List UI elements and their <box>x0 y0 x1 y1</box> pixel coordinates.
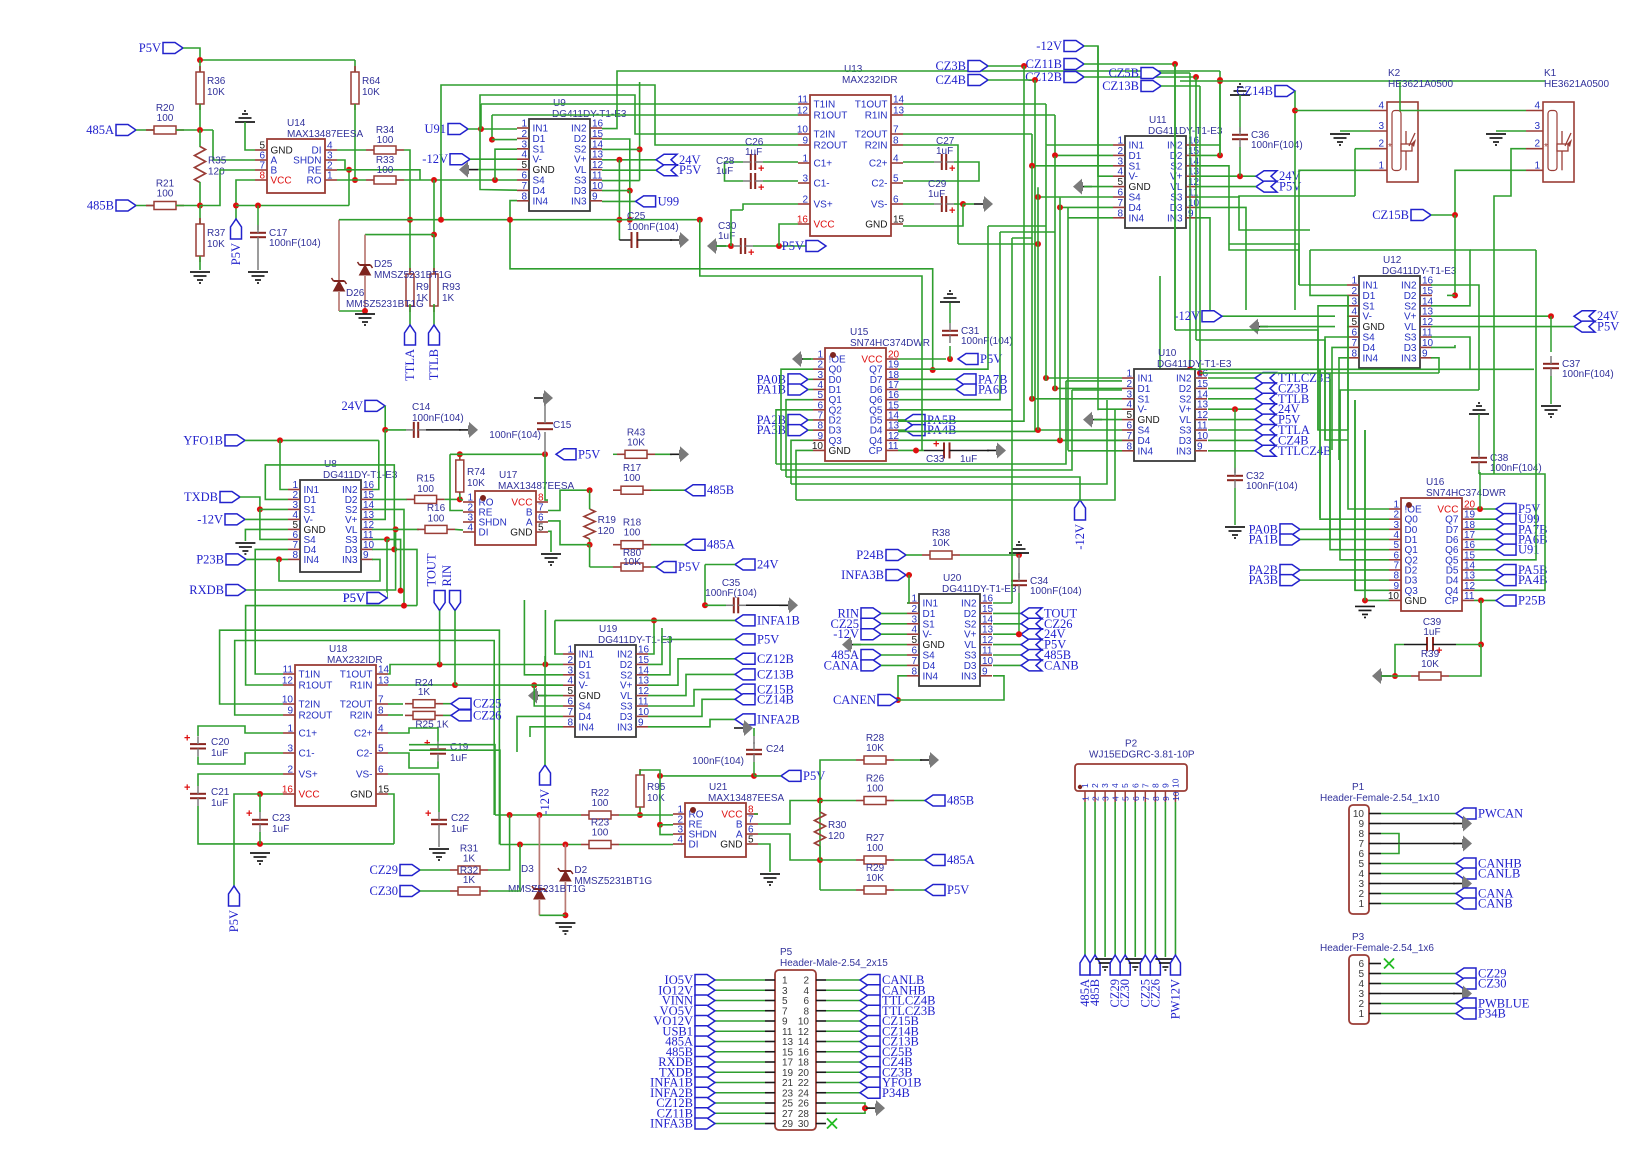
svg-text:11: 11 <box>283 665 294 676</box>
svg-text:+: + <box>758 163 764 175</box>
svg-text:U19: U19 <box>599 624 618 635</box>
svg-text:DG411DY-T1-E3: DG411DY-T1-E3 <box>1157 359 1232 370</box>
svg-text:CZ29: CZ29 <box>370 863 398 877</box>
svg-text:1: 1 <box>567 645 573 656</box>
svg-text:C2+: C2+ <box>869 159 888 170</box>
svg-text:V+: V+ <box>1404 312 1417 323</box>
svg-text:PW12V: PW12V <box>1168 979 1182 1019</box>
svg-text:IN4: IN4 <box>304 555 320 566</box>
svg-text:3: 3 <box>1117 156 1123 167</box>
svg-text:S1: S1 <box>579 670 592 681</box>
svg-text:3: 3 <box>567 665 573 676</box>
svg-text:16: 16 <box>638 645 650 656</box>
svg-text:10K: 10K <box>866 873 884 884</box>
svg-text:CZ30: CZ30 <box>370 884 398 898</box>
svg-text:3: 3 <box>1378 121 1384 132</box>
svg-text:+: + <box>949 205 955 217</box>
svg-text:9: 9 <box>1160 783 1170 788</box>
svg-text:6: 6 <box>378 765 384 776</box>
svg-text:D2: D2 <box>574 134 587 145</box>
svg-text:1: 1 <box>911 594 917 605</box>
svg-text:100: 100 <box>377 135 394 146</box>
svg-text:K1: K1 <box>1544 68 1557 79</box>
svg-text:12: 12 <box>282 676 294 687</box>
svg-text:C14: C14 <box>412 402 431 413</box>
svg-text:12: 12 <box>797 106 809 117</box>
svg-text:S2: S2 <box>1404 301 1417 312</box>
svg-text:4: 4 <box>378 724 384 735</box>
svg-text:8: 8 <box>911 666 917 677</box>
svg-text:4: 4 <box>1351 307 1357 318</box>
svg-text:1: 1 <box>1358 1009 1364 1020</box>
svg-text:12: 12 <box>1197 410 1209 421</box>
svg-text:P5V: P5V <box>679 163 701 177</box>
svg-text:8: 8 <box>1351 348 1357 359</box>
svg-text:7: 7 <box>521 181 527 192</box>
svg-text:VS+: VS+ <box>814 200 833 211</box>
svg-text:14: 14 <box>1197 389 1209 400</box>
svg-text:10K: 10K <box>623 557 641 568</box>
svg-text:4: 4 <box>911 625 917 636</box>
svg-text:*: * <box>1388 142 1392 153</box>
svg-text:15: 15 <box>1197 379 1209 390</box>
svg-text:CZ26: CZ26 <box>473 708 501 722</box>
svg-text:1uF: 1uF <box>928 189 945 200</box>
svg-text:+: + <box>949 163 955 175</box>
svg-text:P25B: P25B <box>1518 593 1546 607</box>
svg-text:CZ4B: CZ4B <box>935 73 966 87</box>
svg-text:15: 15 <box>638 655 650 666</box>
svg-text:V-: V- <box>923 630 932 641</box>
svg-text:8: 8 <box>259 171 265 182</box>
svg-text:6: 6 <box>567 697 573 708</box>
svg-text:10: 10 <box>1197 431 1209 442</box>
svg-text:VS+: VS+ <box>299 770 318 781</box>
svg-text:U99: U99 <box>658 194 680 208</box>
svg-text:C22: C22 <box>451 813 470 824</box>
svg-text:TTLA: TTLA <box>403 349 417 381</box>
svg-text:D4: D4 <box>1138 436 1151 447</box>
svg-text:C2-: C2- <box>871 179 887 190</box>
svg-text:DI: DI <box>479 528 489 539</box>
svg-text:C1-: C1- <box>299 749 315 760</box>
svg-text:10K: 10K <box>647 793 665 804</box>
svg-text:D1: D1 <box>1138 384 1151 395</box>
svg-text:14: 14 <box>638 665 650 676</box>
svg-text:10K: 10K <box>207 239 225 250</box>
svg-text:R64: R64 <box>362 76 381 87</box>
svg-text:1uF: 1uF <box>1423 627 1440 638</box>
svg-text:GND: GND <box>579 691 601 702</box>
svg-text:U21: U21 <box>709 782 728 793</box>
svg-text:10K: 10K <box>207 87 225 98</box>
svg-text:U13: U13 <box>844 64 863 75</box>
svg-text:S3: S3 <box>574 176 587 187</box>
svg-text:120: 120 <box>208 167 225 178</box>
svg-text:10K: 10K <box>362 87 380 98</box>
svg-text:D2: D2 <box>620 660 633 671</box>
svg-text:1: 1 <box>802 154 808 165</box>
svg-text:100: 100 <box>592 798 609 809</box>
svg-text:R74: R74 <box>467 467 486 478</box>
svg-text:12: 12 <box>638 686 650 697</box>
svg-text:D3: D3 <box>1179 436 1192 447</box>
svg-text:C23: C23 <box>272 813 291 824</box>
svg-text:10: 10 <box>282 695 294 706</box>
svg-text:1: 1 <box>1351 276 1357 287</box>
svg-text:VL: VL <box>1170 182 1183 193</box>
svg-text:T1IN: T1IN <box>299 670 321 681</box>
svg-text:R2IN: R2IN <box>865 141 888 152</box>
svg-text:D25: D25 <box>374 259 393 270</box>
svg-text:R37: R37 <box>207 228 226 239</box>
svg-text:6: 6 <box>911 646 917 657</box>
svg-text:485B: 485B <box>947 794 974 808</box>
svg-text:S3: S3 <box>1179 426 1192 437</box>
svg-text:11: 11 <box>798 95 809 106</box>
svg-text:3: 3 <box>1100 783 1110 788</box>
svg-text:GND: GND <box>350 790 372 801</box>
svg-text:6: 6 <box>1130 783 1140 788</box>
svg-text:1uF: 1uF <box>211 798 228 809</box>
svg-text:1uF: 1uF <box>936 146 953 157</box>
svg-text:P3: P3 <box>1352 932 1365 943</box>
svg-text:12: 12 <box>982 635 994 646</box>
svg-text:IN2: IN2 <box>571 124 587 135</box>
svg-text:120: 120 <box>828 831 845 842</box>
svg-text:R2OUT: R2OUT <box>814 141 848 152</box>
svg-text:7: 7 <box>1117 198 1123 209</box>
svg-text:4: 4 <box>1111 796 1121 801</box>
svg-text:IN1: IN1 <box>1363 281 1379 292</box>
svg-text:IN4: IN4 <box>579 722 595 733</box>
svg-text:6: 6 <box>1131 796 1141 801</box>
svg-text:IN4: IN4 <box>1129 213 1145 224</box>
svg-text:GND: GND <box>1363 322 1385 333</box>
svg-text:+: + <box>184 732 190 744</box>
svg-text:100: 100 <box>417 484 434 495</box>
svg-text:S1: S1 <box>1129 161 1142 172</box>
svg-text:10: 10 <box>592 181 604 192</box>
svg-text:IN3: IN3 <box>1401 353 1417 364</box>
svg-text:4: 4 <box>1117 167 1123 178</box>
svg-text:S4: S4 <box>1363 333 1376 344</box>
svg-text:IN2: IN2 <box>961 599 977 610</box>
svg-text:IN1: IN1 <box>923 599 939 610</box>
svg-text:4: 4 <box>467 523 473 534</box>
svg-text:CZ12B: CZ12B <box>1025 70 1062 84</box>
svg-text:14: 14 <box>592 139 604 150</box>
svg-text:TOUT: TOUT <box>425 553 439 586</box>
svg-text:1: 1 <box>1126 369 1132 380</box>
svg-text:C21: C21 <box>211 787 230 798</box>
svg-text:R25 1K: R25 1K <box>415 720 449 731</box>
svg-text:-12V: -12V <box>1036 39 1062 53</box>
svg-text:MMSZ5231BT1G: MMSZ5231BT1G <box>346 299 424 310</box>
svg-text:V-: V- <box>1129 172 1138 183</box>
svg-text:S2: S2 <box>1179 394 1192 405</box>
svg-text:CZ14B: CZ14B <box>1236 84 1273 98</box>
svg-text:CZ5B: CZ5B <box>1108 66 1139 80</box>
svg-text:CZ15B: CZ15B <box>1372 208 1409 222</box>
svg-text:11: 11 <box>638 697 649 708</box>
svg-text:RIN: RIN <box>440 565 454 587</box>
svg-text:5: 5 <box>1117 177 1123 188</box>
svg-text:100: 100 <box>867 784 884 795</box>
svg-text:P34B: P34B <box>1478 1007 1506 1021</box>
svg-text:10: 10 <box>982 656 994 667</box>
svg-text:10: 10 <box>1171 791 1181 801</box>
svg-text:D1: D1 <box>533 134 546 145</box>
svg-text:2: 2 <box>911 604 917 615</box>
svg-text:DG411DY-T1-E3: DG411DY-T1-E3 <box>323 470 398 481</box>
svg-text:11: 11 <box>592 171 603 182</box>
svg-text:V-: V- <box>579 681 588 692</box>
svg-text:100nF(104): 100nF(104) <box>692 756 744 767</box>
svg-text:R15: R15 <box>416 474 435 485</box>
svg-text:DI: DI <box>689 840 699 851</box>
svg-text:10: 10 <box>797 125 809 136</box>
svg-text:10: 10 <box>1170 778 1180 788</box>
svg-text:100nF(104): 100nF(104) <box>627 222 679 233</box>
svg-text:C20: C20 <box>211 737 230 748</box>
svg-text:GND: GND <box>923 640 945 651</box>
svg-text:100nF(104): 100nF(104) <box>1030 586 1082 597</box>
svg-text:WJ15EDGRC-3.81-10P: WJ15EDGRC-3.81-10P <box>1089 750 1195 761</box>
svg-text:CZ30: CZ30 <box>1478 977 1506 991</box>
svg-text:11: 11 <box>982 646 993 657</box>
svg-text:8: 8 <box>378 706 384 717</box>
svg-text:PA4B: PA4B <box>927 423 956 437</box>
svg-text:+: + <box>748 247 754 259</box>
svg-text:2: 2 <box>1378 139 1384 150</box>
svg-text:GND: GND <box>829 446 851 457</box>
svg-text:C1+: C1+ <box>299 729 318 740</box>
svg-text:VL: VL <box>620 691 633 702</box>
svg-text:+: + <box>933 438 939 450</box>
svg-text:3: 3 <box>802 174 808 185</box>
svg-text:3: 3 <box>1101 796 1111 801</box>
svg-text:100: 100 <box>157 113 174 124</box>
svg-text:T1OUT: T1OUT <box>855 100 888 111</box>
svg-text:6: 6 <box>1117 188 1123 199</box>
svg-text:D4: D4 <box>1363 343 1376 354</box>
svg-text:+: + <box>424 738 430 750</box>
svg-text:8: 8 <box>1117 208 1123 219</box>
svg-text:MMSZ5231BT1G: MMSZ5231BT1G <box>574 876 652 887</box>
svg-text:30: 30 <box>798 1119 810 1130</box>
svg-text:2: 2 <box>567 655 573 666</box>
svg-text:+: + <box>246 808 252 820</box>
svg-text:13: 13 <box>592 150 604 161</box>
svg-text:U14: U14 <box>287 118 306 129</box>
svg-text:D4: D4 <box>579 712 592 723</box>
svg-text:100nF(104): 100nF(104) <box>705 588 757 599</box>
svg-text:8: 8 <box>1126 441 1132 452</box>
svg-text:-12V: -12V <box>197 512 223 526</box>
svg-text:GND: GND <box>865 220 887 231</box>
svg-text:14: 14 <box>378 665 390 676</box>
svg-text:1: 1 <box>1534 160 1540 171</box>
svg-text:V+: V+ <box>1170 172 1183 183</box>
svg-text:9: 9 <box>363 550 369 561</box>
svg-text:4: 4 <box>1110 783 1120 788</box>
svg-text:6: 6 <box>1351 328 1357 339</box>
svg-text:SN74HC374DWR: SN74HC374DWR <box>850 338 930 349</box>
svg-text:R2IN: R2IN <box>350 711 373 722</box>
svg-text:DG411DY-T1-E3: DG411DY-T1-E3 <box>1148 126 1223 137</box>
svg-text:GND: GND <box>1405 596 1427 607</box>
svg-text:3: 3 <box>287 744 293 755</box>
svg-text:P5: P5 <box>780 947 793 958</box>
svg-text:R95: R95 <box>647 782 666 793</box>
svg-text:2: 2 <box>1534 139 1540 150</box>
svg-text:15: 15 <box>1422 286 1434 297</box>
svg-text:IN4: IN4 <box>533 196 549 207</box>
svg-text:5: 5 <box>1121 796 1131 801</box>
svg-text:3: 3 <box>1534 121 1540 132</box>
svg-text:SN74HC374DWR: SN74HC374DWR <box>1426 488 1506 499</box>
svg-text:15: 15 <box>982 604 994 615</box>
svg-text:R16: R16 <box>427 503 446 514</box>
svg-text:D3: D3 <box>1170 203 1183 214</box>
svg-text:P5V: P5V <box>1597 320 1619 334</box>
svg-text:P5V: P5V <box>229 243 243 265</box>
svg-text:D1: D1 <box>1363 291 1376 302</box>
svg-text:13: 13 <box>638 676 650 687</box>
svg-text:INFA2B: INFA2B <box>757 712 800 726</box>
svg-text:CANEN: CANEN <box>833 693 876 707</box>
svg-text:CZ26: CZ26 <box>1148 979 1162 1007</box>
svg-text:485A: 485A <box>707 538 735 552</box>
svg-text:R30: R30 <box>828 820 847 831</box>
svg-text:DG411DY-T1-E3: DG411DY-T1-E3 <box>942 584 1017 595</box>
svg-text:10K: 10K <box>1421 659 1439 670</box>
svg-text:P5V: P5V <box>782 239 804 253</box>
svg-text:1uF: 1uF <box>450 753 467 764</box>
svg-text:P5V: P5V <box>947 883 969 897</box>
svg-text:9: 9 <box>1188 208 1194 219</box>
svg-text:14: 14 <box>893 95 905 106</box>
svg-text:2: 2 <box>287 765 293 776</box>
svg-text:D3: D3 <box>620 712 633 723</box>
svg-text:2: 2 <box>1117 146 1123 157</box>
svg-text:10K: 10K <box>627 437 645 448</box>
svg-text:6: 6 <box>1126 421 1132 432</box>
svg-text:5: 5 <box>893 174 899 185</box>
svg-text:1K: 1K <box>463 854 476 865</box>
svg-text:100: 100 <box>867 843 884 854</box>
svg-text:S1: S1 <box>923 619 936 630</box>
svg-text:+: + <box>425 808 431 820</box>
svg-text:-12V: -12V <box>422 152 448 166</box>
svg-text:VL: VL <box>1179 415 1192 426</box>
svg-text:S1: S1 <box>1363 301 1376 312</box>
svg-text:16: 16 <box>1197 369 1209 380</box>
svg-text:*: * <box>1544 142 1548 153</box>
svg-text:1uF: 1uF <box>745 147 762 158</box>
svg-text:9: 9 <box>802 136 808 147</box>
svg-text:IN3: IN3 <box>342 555 358 566</box>
svg-text:S4: S4 <box>1138 426 1151 437</box>
svg-text:15: 15 <box>378 785 390 796</box>
svg-text:14: 14 <box>982 614 994 625</box>
svg-text:2: 2 <box>1091 796 1101 801</box>
svg-text:2: 2 <box>802 195 808 206</box>
svg-text:D1: D1 <box>923 609 936 620</box>
svg-text:R19: R19 <box>598 515 617 526</box>
svg-text:1: 1 <box>1378 160 1384 171</box>
svg-text:5: 5 <box>567 686 573 697</box>
svg-text:R1OUT: R1OUT <box>814 111 848 122</box>
svg-text:D4: D4 <box>1129 203 1142 214</box>
svg-text:P5V: P5V <box>980 352 1002 366</box>
svg-text:V+: V+ <box>574 155 587 166</box>
svg-text:11: 11 <box>888 441 899 452</box>
svg-text:CANB: CANB <box>1478 897 1513 911</box>
svg-text:S2: S2 <box>620 670 633 681</box>
svg-text:U10: U10 <box>1158 348 1177 359</box>
svg-text:V-: V- <box>533 155 542 166</box>
svg-text:INFA1B: INFA1B <box>757 613 800 627</box>
svg-text:8: 8 <box>1151 796 1161 801</box>
svg-text:MAX232IDR: MAX232IDR <box>842 75 898 86</box>
svg-text:100: 100 <box>592 828 609 839</box>
svg-text:100nF(104): 100nF(104) <box>1246 481 1298 492</box>
svg-text:S4: S4 <box>1129 193 1142 204</box>
svg-text:16: 16 <box>797 215 809 226</box>
svg-text:16: 16 <box>982 594 994 605</box>
svg-text:DG411DY-T1-E3: DG411DY-T1-E3 <box>1382 266 1457 277</box>
svg-text:S2: S2 <box>574 144 587 155</box>
svg-text:6: 6 <box>521 171 527 182</box>
svg-text:VCC: VCC <box>814 220 835 231</box>
svg-text:IN3: IN3 <box>571 196 587 207</box>
svg-text:U12: U12 <box>1383 255 1402 266</box>
svg-text:CP: CP <box>869 446 883 457</box>
svg-text:V-: V- <box>1363 312 1372 323</box>
svg-text:1: 1 <box>1080 783 1090 788</box>
svg-text:C2+: C2+ <box>354 729 373 740</box>
svg-text:CANB: CANB <box>1044 658 1079 672</box>
svg-text:1uF: 1uF <box>272 824 289 835</box>
svg-text:CZ13B: CZ13B <box>757 667 794 681</box>
svg-text:4: 4 <box>677 835 683 846</box>
svg-text:C2-: C2- <box>356 749 372 760</box>
svg-text:2: 2 <box>1090 783 1100 788</box>
svg-text:3: 3 <box>521 139 527 150</box>
svg-text:CANA: CANA <box>824 658 859 672</box>
svg-text:13: 13 <box>378 676 390 687</box>
svg-text:8: 8 <box>521 191 527 202</box>
svg-text:7: 7 <box>1140 783 1150 788</box>
svg-text:S3: S3 <box>964 651 977 662</box>
svg-text:4: 4 <box>893 154 899 165</box>
svg-text:1K: 1K <box>442 293 455 304</box>
svg-text:T1IN: T1IN <box>814 100 836 111</box>
svg-text:9: 9 <box>982 666 988 677</box>
svg-text:9: 9 <box>638 717 644 728</box>
svg-text:D2: D2 <box>574 865 587 876</box>
svg-text:VCC: VCC <box>299 790 320 801</box>
svg-text:C19: C19 <box>450 742 469 753</box>
svg-text:100: 100 <box>624 528 641 539</box>
svg-text:S2: S2 <box>1170 161 1183 172</box>
svg-text:VL: VL <box>1404 322 1417 333</box>
svg-text:IN3: IN3 <box>1176 446 1192 457</box>
svg-text:CZ30: CZ30 <box>1118 979 1132 1007</box>
svg-text:5: 5 <box>538 523 544 534</box>
